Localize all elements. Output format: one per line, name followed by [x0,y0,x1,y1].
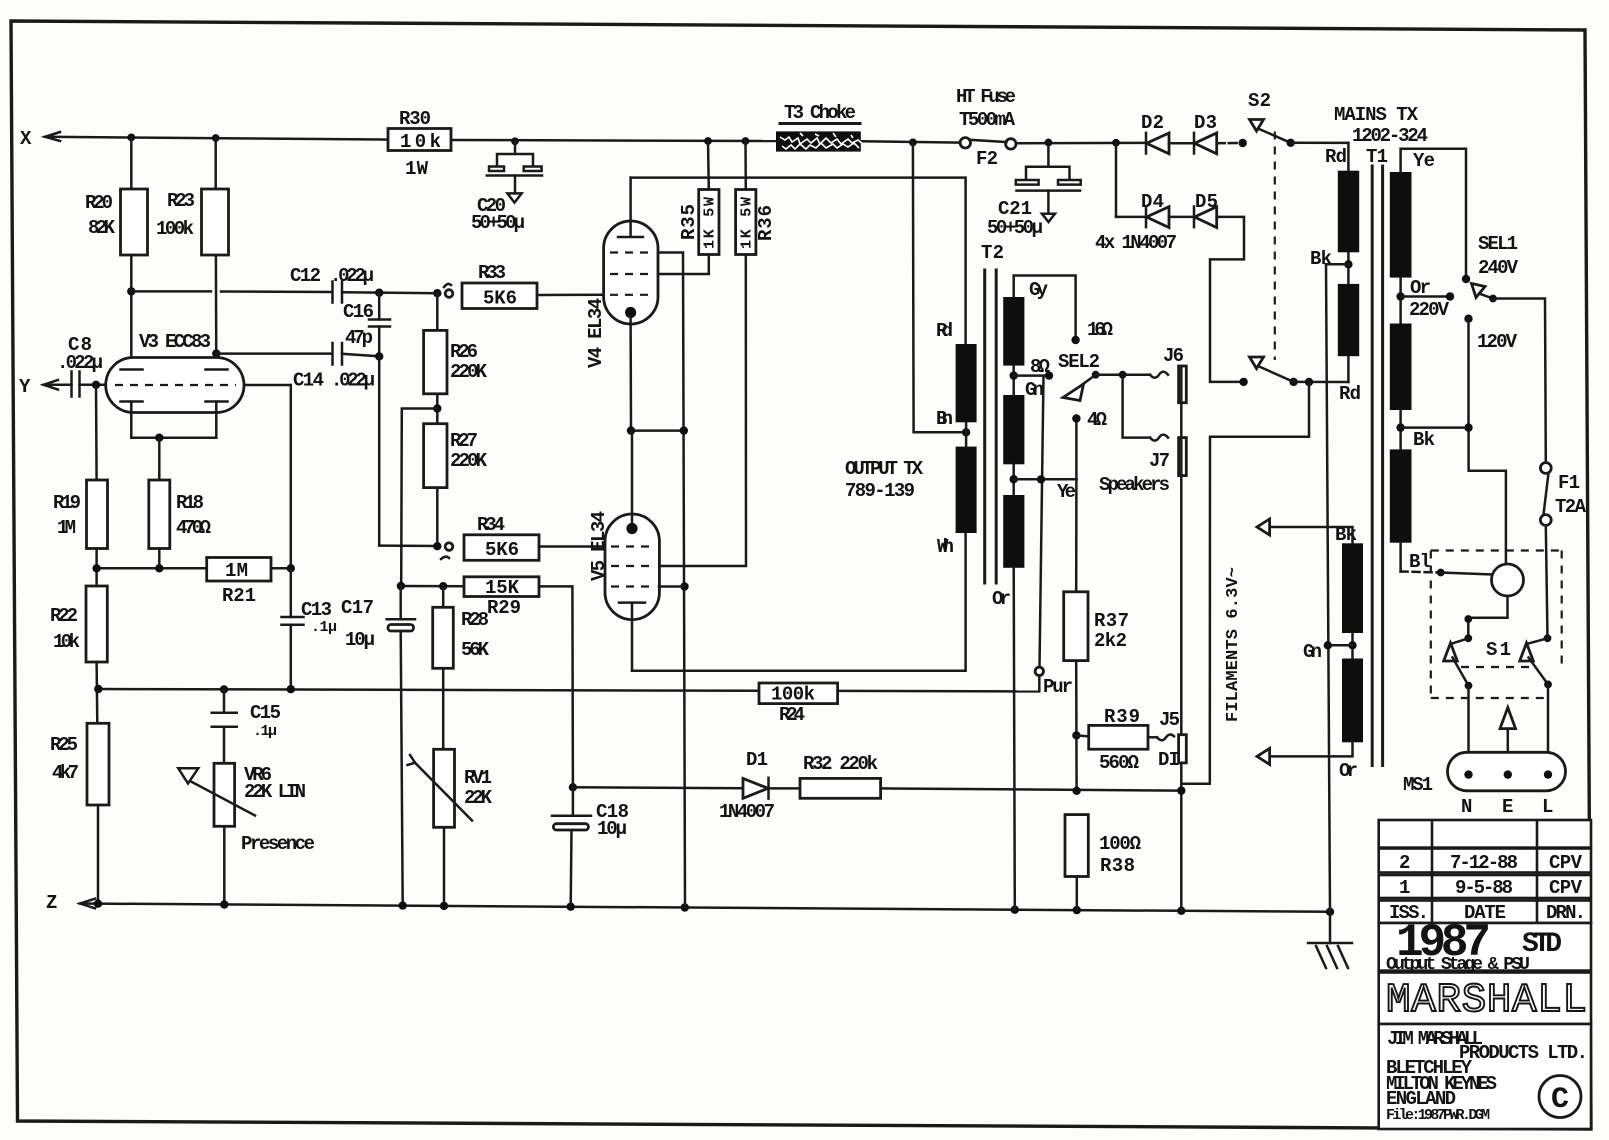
wire anode V3b / C14 row [212,349,220,357]
tube V4 cathode [625,307,636,318]
svg-text:Gn: Gn [1025,379,1044,401]
potentiometer VR6 Presence [214,763,235,826]
svg-text:D3: D3 [1194,112,1217,134]
tube V5 EL34 envelope [605,514,659,620]
svg-text:22K: 22K [464,787,493,809]
svg-text:Speakers: Speakers [1099,474,1170,496]
svg-text:R25: R25 [50,734,78,756]
svg-text:R27: R27 [450,430,478,452]
svg-text:J6: J6 [1163,345,1184,367]
svg-text:R21: R21 [222,585,256,607]
svg-text:R35: R35 [678,204,700,240]
resistor R33 [462,283,537,309]
svg-text:120V: 120V [1477,331,1518,353]
wire D5 output jog [1210,217,1244,382]
node junction X rail at R35 [704,137,712,145]
resistor R26 [436,293,439,330]
svg-text:F2: F2 [976,148,998,170]
svg-text:1M: 1M [225,560,248,582]
node junction grid Y [92,381,100,389]
wire cathode to R18 [158,438,161,480]
resistor R34 [464,535,539,561]
jack J7 [1150,435,1168,441]
resistor R36 1K 5W [744,141,747,190]
node junction R26 feed [433,289,441,297]
node junction V5 suppressor on rail [680,582,688,590]
wire C14 node down to R34 row [379,356,437,546]
ground symbol [1329,912,1332,943]
tube V4 EL34 envelope [604,221,658,324]
node 120V tap row [1399,410,1402,449]
svg-text:470Ω: 470Ω [176,517,211,539]
svg-text:Rd: Rd [1339,383,1361,405]
node junction C16 top [375,289,383,297]
svg-text:10µ: 10µ [597,818,627,840]
resistor R25 [87,723,109,805]
svg-text:Ye: Ye [1413,150,1435,172]
svg-text:CPV: CPV [1549,852,1583,874]
svg-text:15K: 15K [485,577,520,599]
tube V5 grids dashed [611,547,653,587]
wire S2 pole2 to jack sleeve [1181,382,1309,784]
svg-text:56K: 56K [461,639,490,661]
tube V3 anode bars [121,368,228,371]
resistor R19 [87,480,108,549]
node junction X rail at C21 [1045,139,1053,147]
lamp pilot [1492,564,1524,596]
svg-text:82K: 82K [88,217,116,239]
svg-text:R22: R22 [50,605,78,627]
resistor R30 [388,129,451,151]
svg-text:Gn: Gn [1303,641,1322,663]
svg-text:F1: F1 [1558,472,1580,494]
transformer T1 HT secondary Rd lower [1338,284,1359,356]
tube V5 cathode [626,523,637,534]
svg-text:100k: 100k [156,218,194,240]
svg-text:V4 EL34: V4 EL34 [585,298,607,368]
wire C12 row [131,290,211,293]
node junction anode a / C12 [127,287,135,295]
wire SEL1 common to F1 [1493,299,1546,463]
svg-text:C15: C15 [250,702,281,724]
transformer OUTPUT TX secondary winding 2 [1003,395,1024,464]
svg-text:789-139: 789-139 [845,480,915,502]
tube V5 plate [619,603,645,671]
capacitor C16 [378,293,381,320]
svg-text:Or: Or [1339,760,1358,782]
capacitor C14 [333,343,343,365]
earth arrow E [1500,708,1516,729]
svg-text:C12: C12 [290,265,321,287]
node junction X rail at Bn feed [909,139,917,147]
wire R25 to Z rail [97,805,100,904]
resistor R32 220k [769,787,801,790]
svg-text:C14: C14 [293,370,324,392]
wire R19/R18 bottoms row [95,549,98,587]
svg-text:R24: R24 [779,704,805,726]
node Pur terminal [1035,667,1043,675]
svg-text:Bn: Bn [936,408,953,430]
svg-text:22K LIN: 22K LIN [244,781,306,803]
tube V3 cathode bars [121,400,228,403]
title block revision table [1379,820,1591,1129]
svg-text:T1: T1 [1366,146,1388,168]
svg-text:CPV: CPV [1549,877,1583,899]
wire SEL2 to J7 [1123,375,1150,438]
node Gn centre tap [1351,633,1354,659]
svg-text:7-12-88: 7-12-88 [1450,852,1518,874]
svg-text:47p: 47p [345,327,373,349]
resistor R27 [424,424,447,488]
svg-text:MARSHALL: MARSHALL [1386,978,1587,1024]
svg-text:5K6: 5K6 [483,288,517,310]
resistor R21 [207,558,271,582]
svg-text:HT Fuse: HT Fuse [956,86,1016,108]
resistor R20 [130,137,133,189]
wire Z rail [80,904,1330,912]
switch S2 lower pole [1250,357,1264,369]
wire anode V3b down [215,255,218,369]
svg-text:R18: R18 [176,492,204,514]
svg-text:10k: 10k [53,631,80,653]
wire jack sleeve line [1180,366,1183,911]
wire R36 to V5 screen [659,255,746,567]
svg-text:L: L [1542,796,1553,818]
svg-text:E: E [1502,796,1513,818]
wire V5 suppressor to rail [659,585,685,588]
svg-text:Bl: Bl [1409,551,1431,573]
svg-text:R23: R23 [167,190,195,212]
svg-text:Ye: Ye [1057,481,1076,503]
wire Or lead to Z rail [1014,568,1015,910]
node junction on X rail at C20 [511,137,519,145]
transformer T1 filament winding Or lower [1342,659,1363,743]
socket MS1 [1448,752,1566,791]
svg-text:File:1987PWR.DGM: File:1987PWR.DGM [1386,1107,1490,1124]
wire R33 to V4 grid [537,294,604,297]
transformer OUTPUT TX primary Wh winding [956,447,977,533]
svg-text:1W: 1W [405,158,429,180]
wire Bl lead to lamp [1399,543,1402,572]
svg-text:C: C [1551,1083,1569,1117]
wire V5 plate to Wh [632,533,966,671]
svg-text:.022µ: .022µ [331,370,375,392]
wire R26/R27 junction branch to R29 row [401,409,437,587]
svg-text:10µ: 10µ [345,629,375,651]
svg-text:50+50µ: 50+50µ [471,212,525,234]
wire R27 bottom to R34 row [436,488,439,547]
svg-text:560Ω: 560Ω [1099,752,1139,774]
filament arrow upper [1257,519,1270,535]
node X arrow [45,132,60,141]
svg-text:8Ω: 8Ω [1030,356,1050,378]
wire V4 suppressor to cathode rail [658,253,685,908]
svg-text:2: 2 [1399,852,1410,874]
svg-text:9-5-88: 9-5-88 [1455,877,1513,899]
svg-text:R34: R34 [477,514,505,536]
wire Ye 4 ohm tap row [1012,464,1015,495]
resistor R35 1K 5W [707,141,710,190]
svg-text:R39: R39 [1104,706,1140,728]
wire cathodes junction to rail [631,429,684,432]
svg-text:V5 EL34: V5 EL34 [588,511,610,581]
wire R29 row left [401,585,464,588]
svg-text:100Ω: 100Ω [1099,833,1141,855]
svg-text:MS1: MS1 [1403,774,1433,796]
svg-text:5K6: 5K6 [485,539,519,561]
resistor R37 2k2 [1075,479,1078,592]
capacitor C13 [290,568,293,617]
resistor R18 [149,480,170,549]
transformer OUTPUT TX primary Rd winding [956,344,977,422]
jack J5 DI [1148,736,1157,739]
svg-text:T3 Choke: T3 Choke [784,102,856,124]
svg-text:T2A: T2A [1555,496,1587,518]
svg-text:SEL1: SEL1 [1478,233,1518,255]
svg-text:T500mA: T500mA [959,109,1016,131]
svg-text:Bk: Bk [1310,248,1332,270]
svg-text:Or: Or [992,588,1011,610]
capacitor C20 [514,141,517,154]
svg-text:C16: C16 [343,301,374,323]
svg-text:1K 5W: 1K 5W [739,197,756,249]
svg-text:R28: R28 [461,609,489,631]
svg-text:4x 1N4007: 4x 1N4007 [1095,232,1177,254]
svg-text:R32 220k: R32 220k [803,753,878,775]
svg-text:N: N [1461,796,1472,818]
svg-text:RV1: RV1 [464,767,492,789]
capacitor C12 [333,282,343,303]
fuse F1 T2A [1540,463,1551,474]
wire R29 right to D1 row [539,586,573,787]
wire Ye lead to SEL1 240V [1401,149,1466,279]
resistor R28 [442,586,445,607]
svg-text:R33: R33 [478,262,506,284]
svg-text:50+50µ: 50+50µ [987,217,1043,239]
svg-text:C17: C17 [341,597,374,619]
svg-text:220K: 220K [450,450,488,472]
svg-text:Gy: Gy [1029,279,1049,301]
resistor R23 [214,138,217,189]
resistor R29 15K [464,577,539,597]
wire V3 right grid to R21 column [244,384,291,387]
svg-text:J5: J5 [1159,709,1180,731]
chassis dashed box [1431,549,1562,551]
svg-text:R26: R26 [450,341,478,363]
svg-text:16Ω: 16Ω [1087,319,1113,341]
wire R22 to R25 [95,662,98,723]
filament arrow lower [1257,748,1270,764]
node Or 220V tap [1399,278,1402,324]
svg-text:D2: D2 [1141,112,1164,134]
node Bk centre tap [1347,252,1350,284]
node junction R26/R27 [436,394,439,424]
diode D1 1N4007 [573,787,743,788]
wire Gy lead to 16 ohm [1014,276,1076,341]
svg-text:R20: R20 [85,192,113,214]
tube V4 plate [618,178,643,237]
wire D4 branch [1115,143,1118,217]
transformer T1 primary winding 2 [1390,324,1412,411]
svg-text:PRODUCTS LTD.: PRODUCTS LTD. [1459,1042,1588,1064]
svg-text:J7: J7 [1149,450,1170,472]
node junction X rail at D4 branch [1112,139,1120,147]
svg-text:MAINS TX: MAINS TX [1334,104,1419,126]
wire V4 plate line to Rd top [631,178,966,344]
svg-text:Wh: Wh [937,536,954,558]
svg-text:R36: R36 [755,205,777,241]
node 120V terminal [1464,315,1472,323]
svg-text:D1: D1 [746,749,768,771]
svg-text:220V: 220V [1409,299,1450,321]
wire 8 ohm tap row [1012,366,1015,395]
svg-text:OUTPUT TX: OUTPUT TX [845,458,924,480]
svg-text:Rd: Rd [936,320,953,342]
node terminal o R34 [445,543,453,551]
svg-text:Y: Y [19,376,31,398]
svg-text:Z: Z [46,892,57,914]
capacitor C21 [1047,143,1050,167]
svg-text:R37: R37 [1094,610,1129,632]
svg-text:DRN.: DRN. [1546,902,1586,924]
wire anode V3a to C12 row [130,255,133,369]
svg-text:Presence: Presence [241,833,315,855]
svg-text:R38: R38 [1100,855,1135,877]
svg-text:DI: DI [1158,749,1180,771]
svg-text:10k: 10k [400,131,441,153]
wire Bn centre tap to HT rail [913,142,966,432]
svg-text:S2: S2 [1248,90,1271,112]
jack J6 [1150,372,1168,378]
svg-text:1202-324: 1202-324 [1352,125,1428,147]
svg-text:.1µ: .1µ [311,619,337,636]
wire V3 cathode bracket [131,413,216,438]
svg-text:220K: 220K [450,361,488,383]
svg-text:SEL2: SEL2 [1058,351,1100,373]
switch S2 link dashed [1274,132,1276,361]
transformer T1 primary winding 3 [1390,449,1412,542]
svg-text:1N4007: 1N4007 [719,801,775,823]
svg-text:Bk: Bk [1413,429,1435,451]
svg-text:R30: R30 [399,108,431,130]
svg-text:Pur: Pur [1043,676,1073,698]
svg-text:T2: T2 [981,242,1004,264]
node junction on X rail at R23 [212,134,220,142]
copyright circle C [1539,1076,1581,1118]
wire V4 screen to R35 [658,255,709,275]
node Y arrow [44,380,59,390]
svg-text:R19: R19 [53,492,81,514]
svg-text:C13: C13 [301,599,332,621]
resistor R24 100k [759,683,838,704]
tube V4 grids dashed [610,253,652,295]
transformer OUTPUT TX secondary winding 1 [1003,297,1024,366]
capacitor C17 [399,586,402,619]
svg-text:100k: 100k [771,684,815,706]
capacitor C18 [572,787,575,816]
node terminal c R33 [445,290,453,298]
svg-text:Rd: Rd [1325,146,1347,168]
svg-text:FILAMENTS 6.3V~: FILAMENTS 6.3V~ [1224,567,1243,722]
node junction C16 bottom [375,352,383,360]
capacitor C15 [223,689,226,712]
svg-text:V3 ECC83: V3 ECC83 [139,331,211,353]
tube V3 grid dashes [115,384,236,386]
resistor R38 100 ohm [1065,815,1088,877]
svg-text:R29: R29 [487,597,521,619]
svg-text:.022µ: .022µ [330,265,374,287]
svg-text:4Ω: 4Ω [1087,409,1107,431]
node junction X rail at R36 [742,137,750,145]
svg-text:2k2: 2k2 [1094,630,1127,652]
wire X rail [45,137,388,140]
potentiometer RV1 [442,668,445,749]
node junction on X rail at R20 [127,134,135,142]
svg-text:.1µ: .1µ [253,723,277,740]
transformer OUTPUT TX secondary winding 3 [1003,495,1024,568]
resistor R22 [86,586,107,662]
svg-text:1M: 1M [57,517,76,539]
svg-text:Output Stage & PSU: Output Stage & PSU [1386,954,1530,975]
svg-text:X: X [20,128,32,150]
wire Bk rail to ground [1326,264,1330,912]
svg-text:1K 5W: 1K 5W [702,197,719,249]
wire Y node down to R19 [95,385,98,480]
wire mid rail R24 line [98,689,759,691]
resistor R39 560 ohm [1076,735,1088,736]
svg-text:1: 1 [1399,877,1410,899]
svg-text:240V: 240V [1478,257,1519,279]
wire 8 ohm to Pur [1040,376,1044,667]
svg-text:4k7: 4k7 [52,762,79,784]
wire R34 to V5 grid [539,545,605,548]
